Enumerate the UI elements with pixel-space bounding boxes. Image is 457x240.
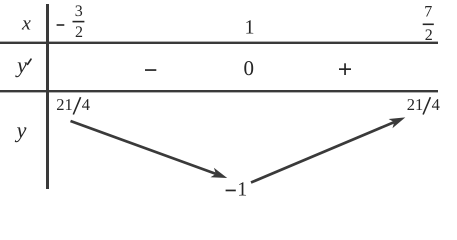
value -1 : minus sign <box>226 190 236 192</box>
horizontal line under x row <box>0 42 438 44</box>
svg-text:2: 2 <box>425 27 433 44</box>
svg-text:y: y <box>15 118 27 143</box>
value -3/2 : minus sign <box>57 24 65 26</box>
horizontal line under y' row <box>0 90 438 92</box>
svg-text:1: 1 <box>237 178 247 200</box>
descending arrow shaft <box>71 121 216 174</box>
svg-text:y: y <box>15 53 27 78</box>
svg-text:21: 21 <box>56 95 73 114</box>
ascending arrow shaft <box>251 122 394 182</box>
svg-text:0: 0 <box>243 56 254 80</box>
svg-text:21: 21 <box>407 95 424 114</box>
svg-text:7: 7 <box>424 4 432 21</box>
vertical header separator line <box>46 4 49 189</box>
value 7/2 : fraction bar <box>423 24 434 26</box>
value -3/2 : fraction bar <box>73 21 85 23</box>
svg-text:4: 4 <box>82 95 90 114</box>
ascending arrow head <box>389 117 406 128</box>
sign minus <box>145 69 156 71</box>
sign plus <box>339 68 351 70</box>
descending arrow head <box>211 168 228 178</box>
svg-text:1: 1 <box>245 17 255 39</box>
svg-text:x: x <box>21 13 31 35</box>
svg-text:4: 4 <box>432 95 440 114</box>
svg-text:3: 3 <box>75 3 83 20</box>
svg-text:2: 2 <box>75 24 83 41</box>
